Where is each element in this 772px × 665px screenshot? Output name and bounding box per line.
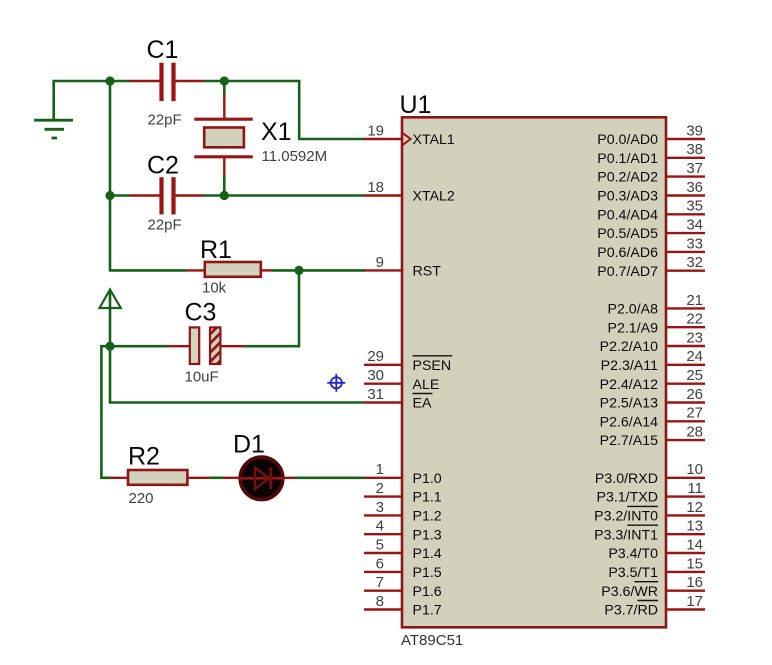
pin 33 (P0.6/AD6) xyxy=(597,235,705,261)
pin 38 (P0.1/AD1) xyxy=(597,141,705,167)
wire R2-D1 link xyxy=(188,477,241,479)
value 10k xyxy=(202,280,227,297)
pin 12 (P3.2/INT0) xyxy=(594,499,705,525)
pin 39 (P0.0/AD0) xyxy=(597,122,705,148)
svg-text:7: 7 xyxy=(376,574,384,591)
svg-text:15: 15 xyxy=(686,555,703,572)
svg-text:P2.2/A10: P2.2/A10 xyxy=(600,339,658,355)
svg-text:32: 32 xyxy=(686,254,703,271)
svg-text:24: 24 xyxy=(686,348,703,365)
svg-text:P1.6: P1.6 xyxy=(413,584,442,600)
svg-text:2: 2 xyxy=(376,480,384,497)
svg-text:25: 25 xyxy=(686,367,703,384)
value 22pF (C2) xyxy=(148,217,182,234)
pin 31 (EA) xyxy=(364,386,432,412)
pin 14 (P3.4/T0) xyxy=(608,536,705,562)
junction C3/EA/R2 xyxy=(105,342,114,351)
svg-text:P2.6/A14: P2.6/A14 xyxy=(600,414,658,430)
svg-text:38: 38 xyxy=(686,141,703,158)
pin 19 (XTAL1) xyxy=(364,122,455,148)
wire RST net: junction to pin 9 xyxy=(299,269,365,272)
wire R1 left lead xyxy=(186,269,205,271)
svg-text:P1.5: P1.5 xyxy=(413,565,442,581)
op-amp U1 body (AT89C51) xyxy=(402,117,666,627)
svg-text:22: 22 xyxy=(686,311,703,328)
svg-text:P1.4: P1.4 xyxy=(413,546,442,562)
resistor R1 xyxy=(205,262,261,277)
wire XTAL2 net: junction to pin 18 xyxy=(224,194,364,197)
pin 23 (P2.2/A10) xyxy=(600,329,705,355)
svg-text:220: 220 xyxy=(129,490,154,507)
svg-text:R1: R1 xyxy=(200,236,232,264)
svg-text:34: 34 xyxy=(686,217,703,234)
svg-text:U1: U1 xyxy=(400,91,432,119)
svg-text:C2: C2 xyxy=(147,152,179,180)
value AT89C51 xyxy=(401,632,463,649)
svg-text:P2.0/A8: P2.0/A8 xyxy=(608,302,659,318)
pin 29 (PSEN) xyxy=(364,348,452,374)
wire X1 top lead xyxy=(223,81,226,119)
svg-text:P1.3: P1.3 xyxy=(413,527,442,543)
pin 17 (P3.7/RD) xyxy=(604,593,705,619)
wire C3 left lead xyxy=(110,345,190,348)
svg-text:P0.6/AD6: P0.6/AD6 xyxy=(597,245,658,261)
svg-text:6: 6 xyxy=(376,555,384,572)
wire R1 right lead xyxy=(261,269,299,271)
pin 5 (P1.4) xyxy=(364,536,442,562)
label R1 xyxy=(200,236,232,264)
pin 25 (P2.4/A12) xyxy=(600,367,705,393)
label U1 xyxy=(400,91,432,119)
svg-text:P0.3/AD3: P0.3/AD3 xyxy=(597,189,658,205)
label C2 xyxy=(147,152,179,180)
svg-text:11.0592M: 11.0592M xyxy=(262,148,328,165)
svg-text:P1.1: P1.1 xyxy=(413,490,442,506)
svg-text:C3: C3 xyxy=(185,299,217,327)
pin 16 (P3.6/WR) xyxy=(601,574,705,600)
svg-text:XTAL1: XTAL1 xyxy=(413,132,455,148)
svg-text:18: 18 xyxy=(367,179,384,196)
svg-text:RST: RST xyxy=(413,264,442,280)
svg-text:X1: X1 xyxy=(261,118,292,146)
svg-text:22pF: 22pF xyxy=(148,112,182,129)
svg-text:14: 14 xyxy=(686,536,703,553)
crystal X1 xyxy=(194,119,252,157)
pin 4 (P1.3) xyxy=(364,518,442,544)
svg-text:P2.4/A12: P2.4/A12 xyxy=(600,377,658,393)
pin 22 (P2.1/A9) xyxy=(608,311,705,337)
svg-text:17: 17 xyxy=(686,593,703,610)
label D1 xyxy=(233,431,265,459)
svg-text:39: 39 xyxy=(686,122,703,139)
svg-text:26: 26 xyxy=(686,386,703,403)
pin 35 (P0.4/AD4) xyxy=(597,198,705,224)
pin 15 (P3.5/T1) xyxy=(608,555,705,581)
svg-text:P2.5/A13: P2.5/A13 xyxy=(600,396,658,412)
pin 32 (P0.7/AD7) xyxy=(597,254,705,280)
pin 9 (RST) xyxy=(364,254,441,280)
svg-text:31: 31 xyxy=(367,386,384,403)
svg-text:P3.7/RD: P3.7/RD xyxy=(604,603,658,619)
label X1 xyxy=(261,118,292,146)
junction rail/C2 xyxy=(105,191,114,200)
svg-text:P0.1/AD1: P0.1/AD1 xyxy=(597,151,658,167)
power arrow terminal xyxy=(100,290,121,347)
svg-text:27: 27 xyxy=(686,405,703,422)
pin 10 (P3.0/RXD) xyxy=(595,461,705,487)
wire C1 left lead xyxy=(110,80,160,83)
junction R1/RST/C3 xyxy=(294,266,303,275)
wire C1 right lead xyxy=(176,80,225,82)
ground xyxy=(34,120,73,138)
value 10uF xyxy=(185,369,219,386)
svg-text:P1.7: P1.7 xyxy=(413,603,442,619)
pin 7 (P1.6) xyxy=(364,574,442,600)
wire EA net: junction to pin 31 xyxy=(110,346,365,402)
svg-text:12: 12 xyxy=(686,499,703,516)
pin 21 (P2.0/A8) xyxy=(608,292,705,318)
svg-text:P2.7/A15: P2.7/A15 xyxy=(600,433,658,449)
svg-text:P3.6/WR: P3.6/WR xyxy=(601,584,658,600)
wire C3 right lead xyxy=(221,345,244,347)
svg-text:P0.5/AD5: P0.5/AD5 xyxy=(597,226,658,242)
pin 28 (P2.7/A15) xyxy=(600,424,705,450)
resistor R2 xyxy=(128,470,187,485)
svg-text:35: 35 xyxy=(686,198,703,215)
svg-text:XTAL2: XTAL2 xyxy=(413,189,455,205)
pin 36 (P0.3/AD3) xyxy=(597,179,705,205)
svg-text:10: 10 xyxy=(686,461,703,478)
svg-text:10uF: 10uF xyxy=(185,369,219,386)
svg-text:D1: D1 xyxy=(233,431,265,459)
capacitor C2 xyxy=(162,177,174,214)
svg-text:1: 1 xyxy=(376,461,384,478)
svg-text:P3.3/INT1: P3.3/INT1 xyxy=(594,527,658,543)
pin 6 (P1.5) xyxy=(364,555,442,581)
svg-text:19: 19 xyxy=(367,122,384,139)
label R2 xyxy=(128,443,160,471)
label C3 xyxy=(185,299,217,327)
svg-text:8: 8 xyxy=(376,593,384,610)
junction rail/C1 xyxy=(105,76,114,85)
svg-text:29: 29 xyxy=(367,348,384,365)
svg-text:PSEN: PSEN xyxy=(413,358,452,374)
wire ground stub xyxy=(54,81,110,120)
pin 1 (P1.0) xyxy=(364,461,442,487)
svg-text:22pF: 22pF xyxy=(148,217,182,234)
svg-text:28: 28 xyxy=(686,424,703,441)
value 220 xyxy=(129,490,154,507)
svg-text:P0.0/AD0: P0.0/AD0 xyxy=(597,132,658,148)
svg-text:P0.4/AD4: P0.4/AD4 xyxy=(597,207,658,223)
pin 37 (P0.2/AD2) xyxy=(597,160,705,186)
svg-text:3: 3 xyxy=(376,499,384,516)
svg-text:P3.5/T1: P3.5/T1 xyxy=(608,565,658,581)
svg-text:R2: R2 xyxy=(128,443,160,471)
capacitor C3 (electrolytic) xyxy=(190,327,221,364)
svg-text:37: 37 xyxy=(686,160,703,177)
svg-text:16: 16 xyxy=(686,574,703,591)
pin 30 (ALE) xyxy=(364,367,439,393)
label C1 xyxy=(147,36,179,64)
wire R2 left lead xyxy=(110,477,129,479)
svg-text:C1: C1 xyxy=(147,36,179,64)
wire C2 left lead xyxy=(110,194,160,197)
svg-text:P1.2: P1.2 xyxy=(413,509,442,525)
wire junction to R2 (left drop) xyxy=(101,346,110,478)
pin 18 (XTAL2) xyxy=(364,179,455,205)
svg-text:P2.3/A11: P2.3/A11 xyxy=(601,358,658,374)
value 22pF (C1) xyxy=(148,112,182,129)
svg-text:EA: EA xyxy=(413,396,432,412)
svg-text:P2.1/A9: P2.1/A9 xyxy=(608,320,659,336)
junction C1/X1 xyxy=(220,76,229,85)
svg-text:ALE: ALE xyxy=(413,377,440,393)
svg-text:P0.7/AD7: P0.7/AD7 xyxy=(597,264,658,280)
pin 2 (P1.1) xyxy=(364,480,442,506)
svg-text:9: 9 xyxy=(376,254,384,271)
svg-text:P3.1/TXD: P3.1/TXD xyxy=(596,490,658,506)
svg-text:11: 11 xyxy=(687,480,703,497)
wire XTAL1 net: junction to pin 19 xyxy=(224,81,364,139)
pin 3 (P1.2) xyxy=(364,499,442,525)
pin 27 (P2.6/A14) xyxy=(600,405,705,431)
origin marker (blue crosshair) xyxy=(327,374,345,392)
svg-text:P3.4/T0: P3.4/T0 xyxy=(608,546,658,562)
svg-text:21: 21 xyxy=(686,292,703,309)
wire RST junction down to C3 xyxy=(243,270,299,346)
pin 8 (P1.7) xyxy=(364,593,442,619)
svg-text:P3.2/INT0: P3.2/INT0 xyxy=(594,509,658,525)
value 11.0592M xyxy=(262,148,328,165)
svg-text:P1.0: P1.0 xyxy=(413,471,442,487)
svg-text:10k: 10k xyxy=(202,280,227,297)
pin 11 (P3.1/TXD) xyxy=(596,480,705,506)
svg-text:30: 30 xyxy=(367,367,384,384)
LED D1 xyxy=(239,457,284,499)
svg-text:P3.0/RXD: P3.0/RXD xyxy=(595,471,658,487)
svg-text:23: 23 xyxy=(686,329,703,346)
wire D1 to pin 1 (P1.0 net) xyxy=(283,477,365,479)
svg-text:P0.2/AD2: P0.2/AD2 xyxy=(597,170,658,186)
pin 26 (P2.5/A13) xyxy=(600,386,705,412)
junction C2/X1 xyxy=(220,191,229,200)
svg-text:4: 4 xyxy=(376,518,384,535)
wire X1 bottom lead xyxy=(223,157,225,196)
wire left rail (node RST/C1/C2) xyxy=(110,81,186,270)
pin 13 (P3.3/INT1) xyxy=(594,518,705,544)
pin 34 (P0.5/AD5) xyxy=(597,217,705,243)
svg-text:5: 5 xyxy=(376,536,384,553)
svg-text:36: 36 xyxy=(686,179,703,196)
pin 24 (P2.3/A11) xyxy=(601,348,705,374)
svg-text:33: 33 xyxy=(686,235,703,252)
capacitor C1 xyxy=(162,63,174,101)
svg-text:13: 13 xyxy=(686,518,703,535)
svg-text:AT89C51: AT89C51 xyxy=(401,632,463,649)
wire C2 right lead xyxy=(176,194,225,196)
